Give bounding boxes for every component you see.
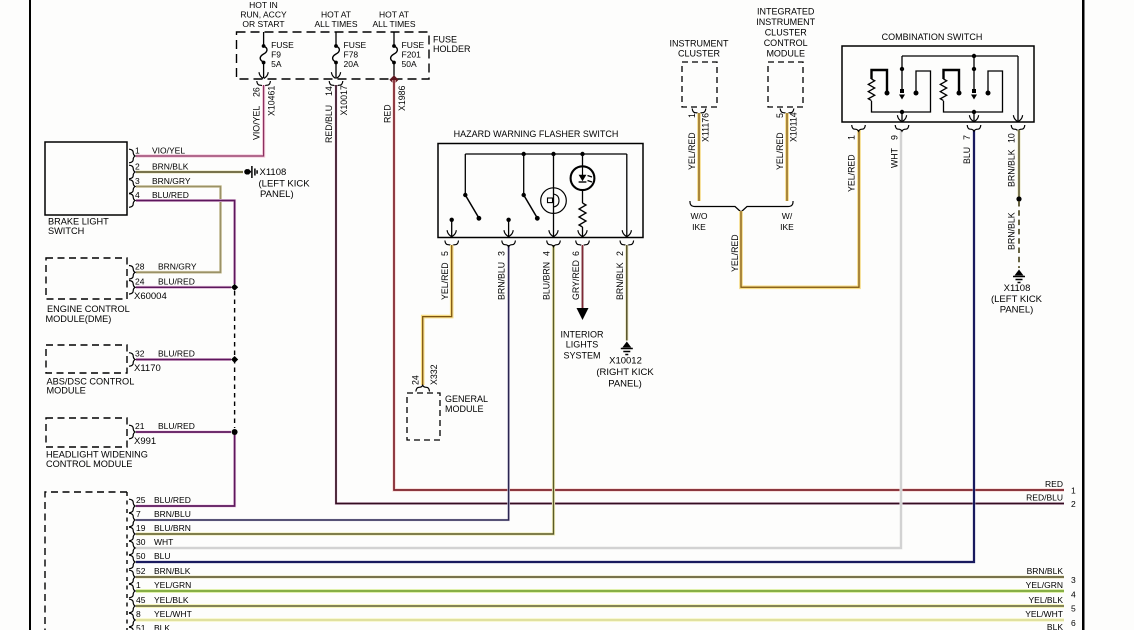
svg-text:IKE: IKE: [780, 222, 794, 232]
svg-text:MODULE: MODULE: [47, 386, 86, 396]
svg-text:X1108: X1108: [1004, 283, 1031, 294]
lower module pin 1 curl: [129, 584, 135, 598]
wire YEL/RED brace to combination switch: [741, 130, 859, 287]
comb switch cell 2 resistor: [940, 79, 946, 101]
svg-text:BLU/BRN: BLU/BRN: [542, 262, 552, 300]
svg-text:32: 32: [135, 349, 145, 359]
svg-text:(RIGHT KICK: (RIGHT KICK: [596, 367, 654, 378]
svg-text:51: 51: [136, 623, 146, 630]
lower connector module box: [45, 492, 127, 630]
wire GRY/RED hazard pin6 down: [581, 245, 584, 308]
svg-text:BLK: BLK: [1047, 622, 1063, 630]
svg-text:BRN/BLK: BRN/BLK: [1007, 149, 1017, 187]
svg-text:BLK: BLK: [154, 623, 170, 630]
svg-text:YEL/GRN: YEL/GRN: [154, 580, 191, 590]
fuse F201: [393, 32, 395, 45]
svg-text:HOT AT: HOT AT: [321, 10, 351, 20]
svg-text:RED/BLU: RED/BLU: [324, 105, 334, 143]
lower module pin 52 curl: [129, 570, 135, 584]
svg-text:SYSTEM: SYSTEM: [563, 351, 600, 361]
svg-text:14: 14: [324, 86, 334, 96]
comb switch cell 2 thick link from resistor to contact: [944, 70, 960, 92]
svg-text:6: 6: [1071, 618, 1076, 628]
X1108 splice symbol: [244, 169, 250, 175]
option brace joining IKE variants: [690, 201, 793, 212]
svg-text:F201: F201: [402, 50, 422, 60]
svg-text:CLUSTER: CLUSTER: [678, 49, 721, 59]
svg-text:X10012: X10012: [609, 356, 642, 367]
bus junction dot sw2: [522, 152, 526, 156]
comb switch pin curl: [967, 125, 981, 131]
svg-text:PANEL): PANEL): [608, 379, 642, 390]
brake switch pin 2 curl: [129, 165, 135, 179]
svg-text:1: 1: [687, 113, 697, 118]
svg-text:F9: F9: [271, 50, 281, 60]
svg-text:2: 2: [135, 162, 140, 172]
svg-text:RED: RED: [383, 104, 393, 123]
engine control module (DME) box: [46, 258, 127, 299]
svg-text:2: 2: [1071, 499, 1076, 509]
svg-text:26: 26: [252, 87, 262, 97]
LED circle: [571, 166, 595, 190]
fuse holder box: [237, 32, 430, 79]
ground X1108: [1015, 270, 1024, 276]
lower module pin 51 curl: [129, 627, 135, 630]
svg-text:BLU/RED: BLU/RED: [158, 421, 195, 431]
svg-text:IKE: IKE: [692, 222, 706, 232]
svg-text:YEL/RED: YEL/RED: [440, 262, 450, 300]
svg-text:45: 45: [136, 595, 146, 605]
comb switch pin curl: [852, 125, 866, 131]
svg-text:YEL/BLK: YEL/BLK: [154, 595, 189, 605]
bus junction dot cell2: [972, 54, 976, 58]
svg-text:GRY/RED: GRY/RED: [571, 260, 581, 300]
svg-text:BRN/BLU: BRN/BLU: [154, 509, 191, 519]
svg-text:W/O: W/O: [691, 211, 708, 221]
svg-text:BRN/GRY: BRN/GRY: [158, 262, 197, 272]
svg-text:52: 52: [136, 566, 146, 576]
svg-text:INTEGRATED: INTEGRATED: [757, 7, 815, 17]
svg-text:9: 9: [890, 135, 900, 140]
general module pin 24 curl: [416, 385, 430, 391]
wire YEL/BLK pin45 to right edge: [136, 604, 1064, 608]
svg-text:VIO/YEL: VIO/YEL: [252, 106, 262, 140]
comb bus: [902, 55, 1018, 57]
junction diamond at ECM splice: [231, 284, 238, 291]
svg-text:X1108: X1108: [260, 167, 287, 178]
svg-text:HAZARD WARNING FLASHER SWITCH: HAZARD WARNING FLASHER SWITCH: [454, 129, 619, 139]
svg-text:ALL TIMES: ALL TIMES: [315, 19, 358, 29]
svg-text:X60004: X60004: [134, 291, 167, 302]
brake switch pin 1 curl: [129, 149, 135, 163]
svg-text:GENERAL: GENERAL: [445, 394, 488, 404]
hazard pin curl: [547, 241, 561, 247]
svg-text:RUN, ACCY: RUN, ACCY: [240, 10, 287, 20]
brake switch pin 4 curl: [129, 194, 135, 208]
comb switch cell 1 junction dot on bottom wire: [900, 110, 904, 114]
wire BRN/BLK comb pin10 down: [1017, 130, 1020, 197]
hazard pin curl: [502, 241, 516, 247]
svg-text:(LEFT KICK: (LEFT KICK: [259, 178, 311, 189]
svg-text:BRN/BLU: BRN/BLU: [497, 262, 507, 300]
svg-text:6: 6: [571, 251, 581, 256]
svg-text:5: 5: [775, 113, 785, 118]
switch2 blade tip dot: [535, 216, 540, 221]
svg-text:BLU: BLU: [154, 551, 171, 561]
svg-text:20A: 20A: [344, 59, 359, 69]
svg-text:HOT IN: HOT IN: [249, 0, 278, 10]
svg-text:FUSE: FUSE: [402, 40, 425, 50]
svg-text:2: 2: [615, 251, 625, 256]
svg-text:X991: X991: [134, 436, 156, 447]
svg-text:YEL/RED: YEL/RED: [687, 132, 697, 170]
dashed BRN/BLK to ground: [1018, 201, 1020, 268]
svg-text:WHT: WHT: [154, 537, 173, 547]
hazard pin curl: [576, 241, 590, 247]
svg-text:1: 1: [136, 580, 141, 590]
svg-text:INTERIOR: INTERIOR: [560, 330, 604, 340]
svg-text:BRN/BLK: BRN/BLK: [154, 566, 191, 576]
fuse F9: [263, 32, 265, 45]
comb switch cell 1 thick link from resistor to contact: [872, 70, 888, 92]
svg-text:X332: X332: [429, 364, 439, 385]
svg-text:5A: 5A: [271, 59, 282, 69]
svg-text:X1986: X1986: [397, 85, 407, 111]
svg-text:HOT AT: HOT AT: [379, 10, 409, 20]
svg-text:ENGINE CONTROL: ENGINE CONTROL: [47, 304, 130, 314]
fuse output pin curl: [257, 81, 271, 87]
wire BLU/BRN pin19 to hazard pin4: [136, 245, 554, 534]
svg-text:COMBINATION SWITCH: COMBINATION SWITCH: [882, 32, 983, 42]
switch2 pivot dot: [522, 193, 526, 197]
comb bus right drop to pin10: [1017, 56, 1019, 122]
wire YEL/GRN pin1 to right edge: [136, 589, 1064, 593]
svg-text:OR START: OR START: [242, 19, 284, 29]
svg-text:BLU: BLU: [962, 147, 972, 164]
svg-text:INSTRUMENT: INSTRUMENT: [670, 39, 729, 49]
svg-text:X10114: X10114: [789, 112, 799, 142]
integrated instrument cluster control module box: [768, 62, 803, 107]
instrument cluster box: [682, 62, 717, 107]
comb switch cell 1 return loop wire and contact: [872, 71, 931, 112]
svg-text:MODULE: MODULE: [766, 49, 805, 59]
wire YEL/WHT pin8 to right edge: [136, 618, 1064, 622]
svg-text:BLU/RED: BLU/RED: [158, 349, 195, 359]
junction dot at HWCM splice: [232, 429, 238, 435]
hazard warning flasher switch box: [438, 144, 643, 238]
wire RED fuse F201 down to right edge: [394, 80, 1064, 490]
lower module pin 19 curl: [129, 527, 135, 541]
svg-text:3: 3: [1071, 575, 1076, 585]
LED cathode bar: [579, 181, 587, 183]
svg-text:4: 4: [542, 251, 552, 256]
wire RED/BLU fuse F78 down to right edge: [336, 85, 1064, 504]
wire BRN/BLK brake pin2 to X1108: [136, 170, 243, 173]
svg-text:FUSE: FUSE: [344, 40, 367, 50]
svg-text:MODULE: MODULE: [445, 404, 484, 414]
wire YEL/RED hazard pin5 to general module: [423, 245, 452, 385]
svg-text:3: 3: [497, 251, 507, 256]
hazard switch2 blade: [524, 195, 537, 218]
wire BLU/RED abs pin32 to junction: [136, 358, 231, 361]
svg-text:BRAKE LIGHT: BRAKE LIGHT: [48, 217, 109, 227]
switch1 pivot dot: [463, 193, 467, 197]
svg-text:(LEFT KICK: (LEFT KICK: [991, 294, 1043, 305]
comb switch cell 1 pin stub and arrow: [901, 112, 903, 122]
svg-text:4: 4: [135, 190, 140, 200]
headlight widening control module box: [46, 418, 127, 447]
junction diamond fuse F201 output: [389, 75, 398, 84]
svg-text:5: 5: [440, 251, 450, 256]
svg-text:BRN/GRY: BRN/GRY: [152, 176, 191, 186]
wire BRN/BLK pin52 to right edge: [136, 575, 1064, 578]
svg-text:FUSE: FUSE: [433, 35, 457, 45]
comb switch cell 2 junction dot on bottom wire: [972, 110, 976, 114]
LED triangle: [579, 175, 587, 181]
svg-text:24: 24: [135, 277, 145, 287]
svg-text:YEL/BLK: YEL/BLK: [1029, 595, 1064, 605]
hazard pin curl: [445, 241, 459, 247]
svg-text:28: 28: [135, 262, 145, 272]
hazard lamp branch line: [553, 154, 555, 237]
hazard resistor to pin6: [582, 227, 584, 237]
interior lights arrowhead: [577, 308, 589, 320]
hazard pin5 stub: [451, 220, 453, 237]
junction dot comb pin10: [1016, 196, 1021, 201]
svg-text:5: 5: [1071, 604, 1076, 614]
svg-text:19: 19: [136, 523, 146, 533]
svg-text:YEL/RED: YEL/RED: [847, 154, 857, 192]
bus junction dot lamp: [551, 152, 555, 156]
svg-text:BLU/RED: BLU/RED: [152, 190, 189, 200]
svg-text:BRN/BLK: BRN/BLK: [615, 262, 625, 300]
bus junction dot led: [580, 152, 584, 156]
lower module pin 8 curl: [129, 613, 135, 627]
wire WHT pin30 to comb pin9: [136, 130, 901, 548]
svg-text:CLUSTER: CLUSTER: [765, 28, 808, 38]
lower module pin 50 curl: [129, 555, 135, 569]
svg-text:F78: F78: [344, 50, 359, 60]
svg-text:PANEL): PANEL): [260, 189, 294, 200]
svg-text:YEL/GRN: YEL/GRN: [1026, 580, 1063, 590]
ground X10012: [622, 342, 631, 348]
lower module pin 45 curl: [129, 599, 135, 613]
svg-text:BRN/BLK: BRN/BLK: [1027, 566, 1064, 576]
svg-text:7: 7: [962, 135, 972, 140]
indicator lamp circle: [541, 188, 567, 214]
comb switch pin curl: [895, 125, 909, 131]
svg-text:PANEL): PANEL): [1000, 305, 1034, 316]
iiccm pin 5 curl: [780, 109, 794, 115]
svg-text:X10461: X10461: [267, 86, 277, 116]
left page border: [29, 0, 31, 630]
fuse F78: [335, 32, 337, 45]
LED light arrows: [588, 176, 593, 183]
svg-text:21: 21: [135, 421, 145, 431]
svg-text:1: 1: [135, 146, 140, 156]
hazard switch1 riser: [464, 154, 466, 195]
hazard switch1 blade: [465, 195, 478, 218]
svg-text:1: 1: [1071, 486, 1076, 496]
svg-text:3: 3: [135, 176, 140, 186]
hazard top bus: [465, 153, 627, 155]
svg-text:10: 10: [1007, 133, 1017, 143]
comb switch cell 1 pole from bus: [901, 56, 903, 91]
wire BRN/BLK hazard pin2 down: [625, 245, 628, 341]
svg-text:50: 50: [136, 551, 146, 561]
comb switch cell 1 resistor: [868, 79, 874, 101]
wire BRN/BLU pin7 to hazard pin3: [136, 245, 509, 520]
svg-text:X1170: X1170: [134, 363, 161, 374]
svg-text:RED: RED: [1045, 479, 1063, 489]
svg-text:25: 25: [136, 495, 146, 505]
right page border: [1082, 0, 1085, 630]
svg-text:HOLDER: HOLDER: [433, 44, 471, 54]
svg-text:YEL/RED: YEL/RED: [775, 132, 785, 170]
svg-text:X10017: X10017: [339, 85, 349, 115]
hazard led to resistor: [582, 190, 584, 203]
hazard led branch upper: [582, 154, 584, 167]
svg-text:BRN/BLK: BRN/BLK: [152, 162, 189, 172]
switch1 blade tip dot: [477, 216, 482, 221]
svg-text:BRN/BLK: BRN/BLK: [1007, 212, 1017, 250]
svg-text:24: 24: [411, 375, 421, 385]
junction diamond at ABS splice: [231, 356, 238, 363]
hazard switch2 riser: [523, 154, 525, 195]
svg-text:7: 7: [136, 509, 141, 519]
svg-text:YEL/WHT: YEL/WHT: [154, 609, 192, 619]
wire VIO/YEL fuse F9 to brake pin1: [136, 85, 264, 156]
general module box: [407, 393, 440, 440]
dashed link between BLU/RED junctions: [234, 291, 236, 428]
hazard pin3 stub: [508, 220, 510, 237]
svg-text:ALL TIMES: ALL TIMES: [373, 19, 416, 29]
comb switch cell 2 pin stub and arrow: [973, 112, 975, 122]
wire YEL/RED instrument cluster down: [697, 113, 701, 201]
svg-text:VIO/YEL: VIO/YEL: [152, 146, 185, 156]
wire BLU/RED junction down to pin 25: [136, 434, 235, 506]
switch2 contact dot: [506, 218, 510, 222]
svg-text:4: 4: [1071, 590, 1076, 600]
instrument cluster pin 1 curl: [692, 109, 706, 115]
svg-text:RED/BLU: RED/BLU: [1026, 493, 1063, 503]
svg-text:CONTROL: CONTROL: [764, 38, 808, 48]
resistor R in hazard switch: [579, 203, 586, 227]
brake switch pin 3 curl: [129, 180, 135, 194]
hazard pin curl: [620, 241, 634, 247]
switch1 contact dot: [450, 218, 454, 222]
svg-text:LIGHTS: LIGHTS: [566, 340, 599, 350]
svg-text:MODULE(DME): MODULE(DME): [46, 314, 112, 324]
wire BLU/RED hwcm pin21 to junction: [136, 431, 231, 434]
wire BLU/RED ecm pin24 to junction: [136, 286, 231, 289]
wire BLU pin50 to comb pin7: [136, 130, 974, 562]
svg-text:BLU/BRN: BLU/BRN: [154, 523, 191, 533]
svg-text:YEL/RED: YEL/RED: [730, 234, 740, 272]
wire YEL/RED iiccm down: [785, 113, 789, 201]
svg-text:W/: W/: [782, 211, 793, 221]
lower module pin 30 curl: [129, 541, 135, 555]
wire BRN/GRY brake pin3 to ECM pin28: [136, 187, 221, 273]
wire BLU/RED brake pin4 down: [136, 201, 235, 285]
svg-text:SWITCH: SWITCH: [48, 226, 84, 236]
svg-text:HEADLIGHT WIDENING: HEADLIGHT WIDENING: [46, 450, 148, 460]
svg-text:YEL/WHT: YEL/WHT: [1025, 609, 1063, 619]
svg-text:8: 8: [136, 609, 141, 619]
comb switch cell 2 return loop wire and contact: [944, 71, 1003, 112]
svg-text:CONTROL MODULE: CONTROL MODULE: [46, 459, 132, 469]
fuse output pin curl: [329, 81, 343, 87]
svg-text:50A: 50A: [402, 59, 417, 69]
svg-text:X11176: X11176: [701, 113, 711, 142]
comb switch pin curl: [1011, 125, 1025, 131]
brake light switch box: [45, 142, 127, 215]
hazard bus to pin2 drop: [626, 154, 628, 237]
svg-text:BLU/RED: BLU/RED: [154, 495, 191, 505]
svg-text:WHT: WHT: [890, 147, 900, 168]
lower module pin 7 curl: [129, 513, 135, 527]
comb switch cell 2 pole from bus: [973, 56, 975, 91]
lower module pin 25 curl: [129, 499, 135, 513]
svg-text:30: 30: [136, 537, 146, 547]
svg-text:FUSE: FUSE: [271, 40, 294, 50]
svg-text:1: 1: [847, 135, 857, 140]
combination switch box: [842, 46, 1034, 122]
ABS/DSC control module box: [46, 345, 127, 373]
svg-text:INSTRUMENT: INSTRUMENT: [756, 17, 815, 27]
svg-text:BLU/RED: BLU/RED: [158, 277, 195, 287]
